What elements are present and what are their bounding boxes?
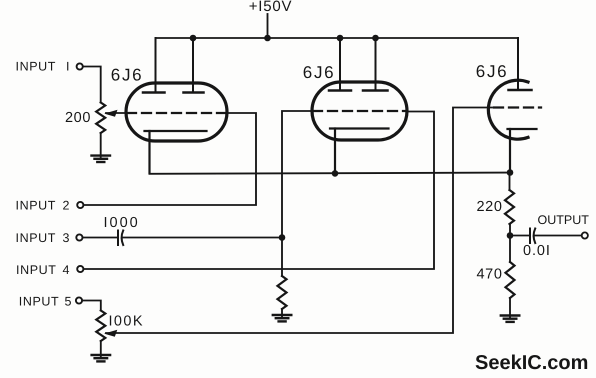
ground (grid resistor) xyxy=(273,315,292,321)
node OUTPUT xyxy=(538,213,590,239)
junction: tube V2 cathode / bus xyxy=(332,170,339,177)
node INPUT 1 xyxy=(16,59,83,73)
junction: rail / tube2 left plate xyxy=(337,35,344,42)
junction: rail / tube2 right plate xyxy=(372,35,379,42)
pin lead: tube V1 left plate xyxy=(155,38,157,93)
junction: tube V3 cathode / bus / 220 xyxy=(507,169,514,176)
svg-text:2: 2 xyxy=(63,199,70,213)
wire: pot 200 bottom to ground xyxy=(100,133,102,157)
node INPUT 2 xyxy=(16,199,84,213)
junction: rail / tube1 right plate xyxy=(190,35,197,42)
svg-text:5: 5 xyxy=(65,295,72,309)
plate bar: tube V3 xyxy=(509,89,532,92)
resistor (tube V2 grid leak) xyxy=(278,276,287,309)
ground (pot 100K) xyxy=(92,355,111,361)
tube V2 6J6 envelope xyxy=(312,82,407,140)
svg-text:INPUT: INPUT xyxy=(16,231,57,245)
resistor 100K (potentiometer) xyxy=(96,311,105,342)
arrow: pot 100K wiper xyxy=(104,330,117,337)
svg-text:I00K: I00K xyxy=(109,314,144,330)
svg-text:+I50V: +I50V xyxy=(249,0,293,15)
pin lead: tube V2 right plate xyxy=(375,38,377,91)
wire: 470 to ground xyxy=(509,298,511,317)
plate bar: tube V1 left xyxy=(143,91,165,94)
capacitor 0.01 xyxy=(530,229,535,244)
cathode: tube V2 xyxy=(330,127,389,129)
resistor 220 xyxy=(505,190,514,224)
plate bar: tube V1 right xyxy=(184,91,204,94)
svg-text:INPUT: INPUT xyxy=(16,199,57,213)
wire: cathode junction to resistor 220 xyxy=(509,173,511,191)
wire: tube V2 left grid down xyxy=(282,111,312,276)
svg-text:200: 200 xyxy=(65,110,91,126)
wire: pot 200 wiper to tube1 grid xyxy=(106,112,127,114)
wire: grid resistor to ground xyxy=(281,309,283,317)
wire: output node to capacitor 0.01 xyxy=(510,235,529,237)
grid: tube V2 (dashed) xyxy=(313,110,406,112)
pin lead: tube V1 right plate xyxy=(192,38,194,93)
plate bar: tube V2 left xyxy=(329,89,351,92)
svg-text:SeekIC.com: SeekIC.com xyxy=(475,352,588,374)
arrow: pot 200 wiper xyxy=(104,110,117,117)
pin lead: tube V3 plate xyxy=(517,38,519,90)
wire: INPUT 3 to capacitor xyxy=(83,237,117,239)
wire: pot 100K wiper to tube V3 grid xyxy=(106,108,492,334)
svg-text:INPUT: INPUT xyxy=(19,295,60,309)
wire: output node to resistor 470 xyxy=(509,236,511,263)
wire: pot 100K to ground xyxy=(100,341,102,357)
svg-text:I000: I000 xyxy=(104,215,140,231)
svg-text:I: I xyxy=(66,59,69,73)
plate bar: tube V2 right xyxy=(363,89,388,92)
svg-text:OUTPUT: OUTPUT xyxy=(538,213,590,227)
wire: input1 to pot 200 top xyxy=(83,67,101,103)
svg-text:6J6: 6J6 xyxy=(303,63,336,82)
grid: tube V3 (dashed) xyxy=(494,106,541,108)
svg-text:470: 470 xyxy=(477,267,503,283)
tube V3 6J6 (half) envelope xyxy=(488,80,528,139)
junction: INPUT 3 / grid resistor xyxy=(279,234,286,241)
junction: output node xyxy=(507,232,514,239)
svg-text:6J6: 6J6 xyxy=(111,66,144,85)
wire: +150V supply lead xyxy=(267,14,269,38)
svg-text:0.0I: 0.0I xyxy=(523,243,551,259)
node INPUT 4 xyxy=(16,263,83,277)
resistor 200 (potentiometer) xyxy=(96,103,105,134)
pin lead: tube V2 left plate xyxy=(339,38,341,91)
wire: B+ rail xyxy=(156,37,519,39)
wire: tube V1 right grid to INPUT 2 xyxy=(84,113,257,205)
junction: rail / +150V feed xyxy=(264,35,271,42)
capacitor 1000 xyxy=(118,231,123,246)
svg-text:INPUT: INPUT xyxy=(16,263,57,277)
svg-text:INPUT: INPUT xyxy=(16,59,57,73)
node INPUT 3 xyxy=(16,231,83,245)
tube V1 6J6 envelope xyxy=(126,83,227,141)
wire: capacitor 0.01 to OUTPUT terminal xyxy=(535,235,582,237)
grid: tube V1 (dashed) xyxy=(127,112,226,114)
wire: INPUT 4 to tube V2 right grid xyxy=(84,112,434,270)
ground (pot 200) xyxy=(92,156,111,162)
wire: 220 to output node xyxy=(509,224,511,236)
svg-text:6J6: 6J6 xyxy=(476,62,509,81)
cathode: tube V3 xyxy=(508,128,537,130)
resistor 470 xyxy=(506,262,515,298)
wire: capacitor to grid-resistor junction xyxy=(123,237,283,239)
svg-text:4: 4 xyxy=(63,263,70,277)
svg-text:220: 220 xyxy=(477,199,503,215)
cathode: tube V1 xyxy=(145,130,207,132)
svg-text:3: 3 xyxy=(63,231,70,245)
node INPUT 5 xyxy=(19,295,82,309)
ground (470) xyxy=(501,316,520,322)
wire: INPUT 5 to pot 100K xyxy=(82,301,101,311)
wire: cathode bus xyxy=(150,173,511,174)
